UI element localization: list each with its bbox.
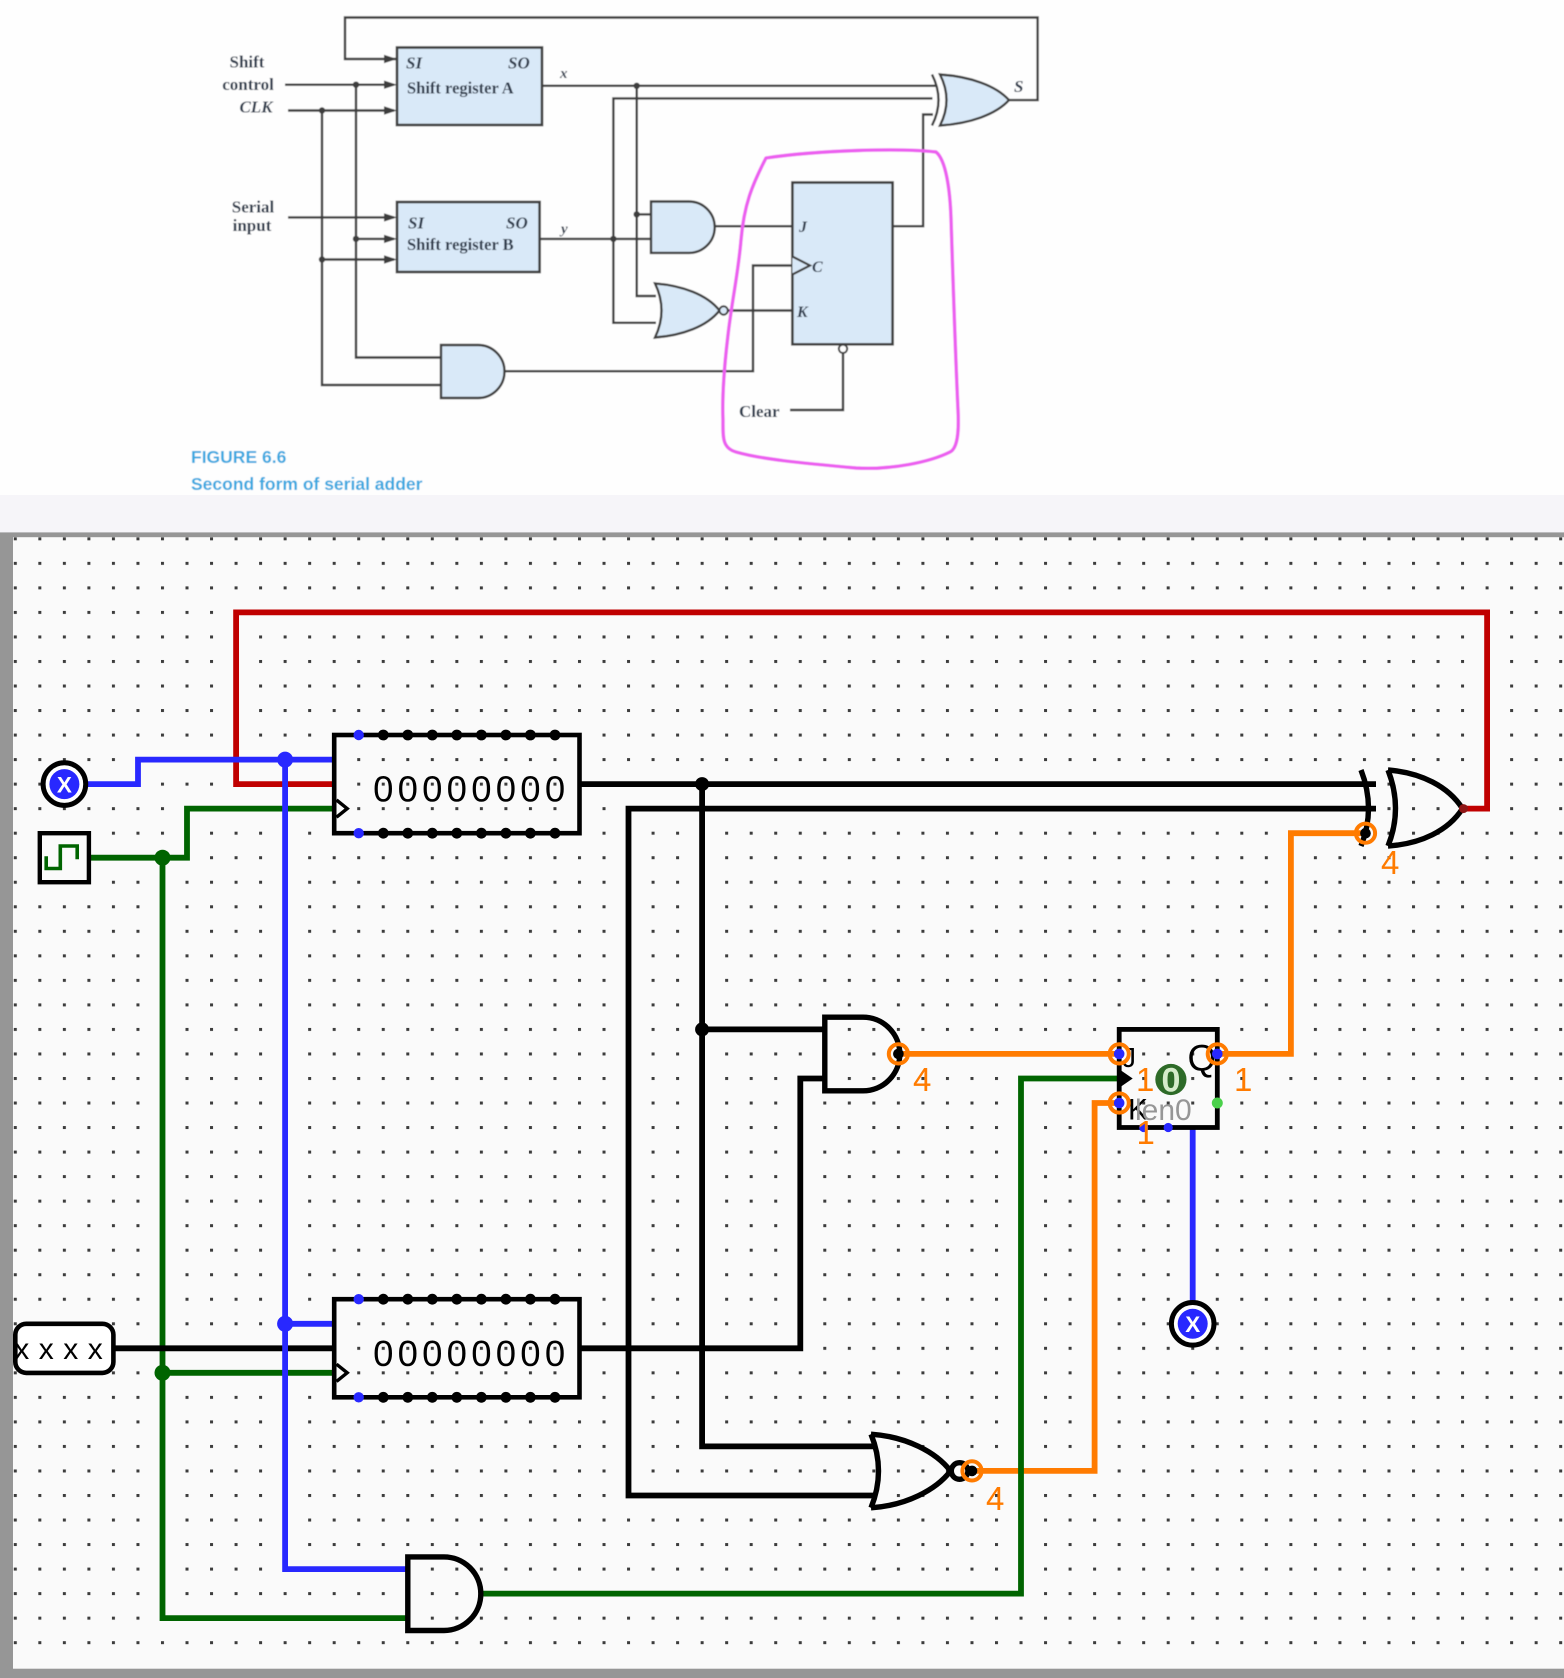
width mismatch marker J pin (1110, 1044, 1129, 1063)
label Shift control (222, 53, 1023, 422)
JK flip-flop (len0) (1119, 1029, 1223, 1132)
svg-text:x: x (14, 1333, 29, 1366)
svg-text:Shift register A: Shift register A (407, 79, 514, 98)
shift register B box (397, 202, 540, 272)
svg-text:0: 0 (447, 1333, 467, 1374)
svg-text:Shift register B: Shift register B (407, 235, 514, 254)
wire Q feedback to XOR input 3 (893, 115, 933, 227)
svg-text:0: 0 (447, 769, 467, 810)
wire branch to AND1 input 1 (702, 1027, 825, 1033)
svg-text:0: 0 (422, 1333, 442, 1374)
wire blue vertical to register B (285, 760, 334, 1324)
simulator canvas background (0, 495, 1564, 532)
wire pin X to register A (86, 760, 334, 785)
wire NOR output to K (972, 1103, 1119, 1471)
svg-text:x: x (88, 1333, 103, 1366)
svg-text:0: 0 (545, 769, 565, 810)
svg-text:0: 0 (373, 769, 393, 810)
NOR gate feeding K (4-bit) (871, 1434, 968, 1508)
svg-text:x: x (39, 1333, 54, 1366)
arrowheads into registers (384, 55, 397, 63)
XOR gate (4-bit) (1361, 770, 1463, 846)
svg-text:1: 1 (1234, 1061, 1252, 1098)
output pin X (top left) (43, 763, 86, 806)
svg-text:Serial: Serial (232, 198, 275, 217)
wire CLK (288, 109, 394, 111)
pink highlighter loop around JK flip-flop (723, 150, 959, 468)
svg-text:K: K (796, 304, 809, 321)
width mismatch marker Q pin (1208, 1044, 1227, 1063)
svg-text:0: 0 (398, 769, 418, 810)
wire register A output branch down to AND1 and NOR input 1 (702, 784, 874, 1446)
wire Shift control (285, 83, 394, 85)
svg-text:input: input (233, 216, 272, 235)
AND gate feeding J (651, 202, 715, 253)
XOR output port dot (1459, 804, 1468, 813)
wire clock net to C input (505, 266, 793, 372)
svg-text:Clear: Clear (739, 402, 780, 421)
JK state badge 0 (1155, 1064, 1186, 1095)
junction clock net at register B (155, 1365, 171, 1381)
junction blue net at register B (277, 1316, 293, 1332)
AND gate feeding JK clock (408, 1557, 481, 1631)
svg-text:0: 0 (520, 769, 540, 810)
wire shift-control vertical to AND input 1 (356, 85, 441, 358)
JK flip-flop box (792, 183, 892, 353)
svg-text:0: 0 (496, 1333, 516, 1374)
svg-text:J: J (798, 219, 808, 236)
svg-text:y: y (559, 222, 568, 238)
wire net to XOR input 2 and NOR input 2 (629, 809, 1377, 1496)
shift register A box (397, 48, 542, 126)
wire CLK vertical to AND input 2 (322, 111, 441, 386)
wire AND2 output to JK clock (481, 1079, 1119, 1594)
svg-text:4: 4 (1381, 844, 1399, 881)
svg-text:4: 4 (986, 1480, 1004, 1517)
junction clock net top (155, 850, 171, 866)
shift register B (00000000) (334, 1294, 579, 1403)
clock component (40, 833, 89, 882)
svg-text:0: 0 (471, 769, 491, 810)
svg-text:Second form of serial adder: Second form of serial adder (191, 474, 423, 494)
svg-text:X: X (1185, 1312, 1200, 1337)
width mismatch marker XOR input (1356, 824, 1375, 843)
svg-text:SO: SO (508, 54, 530, 73)
AND gate (shift control, CLK) (441, 345, 505, 398)
svg-text:X: X (57, 772, 72, 797)
svg-text:control: control (222, 75, 274, 94)
wire register A output to XOR input 1 (580, 781, 1377, 787)
wire AND output to J (715, 225, 793, 227)
junction register A output net (695, 777, 709, 791)
XOR gate producing S (940, 75, 1009, 126)
wire Serial input (288, 216, 394, 218)
wire JK bottom port to output pin X (1190, 1128, 1196, 1302)
svg-text:0: 0 (545, 1333, 565, 1374)
wire y branch down to NOR input 2 (613, 239, 656, 323)
left gray strip (0, 537, 13, 1678)
svg-text:x: x (63, 1333, 78, 1366)
svg-text:0: 0 (520, 1333, 540, 1374)
canvas top border (0, 532, 1564, 537)
junction blue net top (277, 752, 293, 768)
svg-text:x: x (559, 66, 568, 82)
wire Clear input (790, 353, 843, 410)
wire NOR output to K (728, 309, 793, 311)
svg-text:0: 0 (496, 769, 516, 810)
svg-text:SO: SO (506, 214, 528, 233)
wire feedback SO-A to SI-A and from S output (345, 18, 1038, 101)
wire y (register B output) (540, 238, 652, 240)
svg-text:0: 0 (471, 1333, 491, 1374)
svg-text:SI: SI (406, 54, 423, 73)
junction at AND1 input branch (695, 1022, 709, 1036)
width mismatch marker AND1 output (889, 1044, 908, 1063)
svg-text:C: C (812, 259, 823, 276)
wire clock vertical to register B clock (163, 858, 335, 1373)
wire register B output to AND1 input 2 (580, 1079, 825, 1349)
NOR gate feeding K (655, 283, 720, 337)
JK right edge green dot (1212, 1098, 1223, 1109)
wire blue vertical to AND2 input 1 (285, 1324, 408, 1569)
shift register A (00000000) (334, 730, 579, 839)
wire x to AND input 1 (637, 213, 652, 215)
junction dots (353, 82, 359, 88)
svg-text:Shift: Shift (230, 53, 265, 72)
width mismatch marker NOR output (962, 1461, 981, 1480)
wire x (register A output to XOR) (542, 85, 936, 87)
bottom gray strip (13, 1669, 1564, 1678)
svg-text:4: 4 (913, 1061, 931, 1098)
svg-text:0: 0 (398, 1333, 418, 1374)
JK bottom ports (1139, 1123, 1148, 1132)
wire error net feedback from XOR output to register A input (236, 612, 1487, 808)
svg-text:SI: SI (408, 214, 425, 233)
wire CLK branch into register B clock (322, 258, 394, 260)
svg-text:0: 0 (373, 1333, 393, 1374)
wire x branch down to AND and NOR (637, 86, 656, 296)
wire AND1 output to J (898, 1051, 1119, 1057)
svg-text:0: 0 (422, 769, 442, 810)
wire y branch up to XOR input 2 (613, 98, 932, 239)
svg-text:1: 1 (1136, 1061, 1154, 1098)
input pin xxxx (4-bit) (14, 1324, 113, 1373)
wire clock to register A clock (89, 809, 334, 858)
wire shift-control branch into register B (356, 238, 394, 240)
svg-text:1: 1 (1137, 1114, 1155, 1151)
svg-text:S: S (1014, 77, 1023, 96)
svg-text:FIGURE 6.6: FIGURE 6.6 (191, 447, 287, 467)
svg-text:CLK: CLK (239, 98, 274, 117)
wire Q output to XOR input 3 (1217, 833, 1364, 1054)
AND gate feeding J (4-bit) (825, 1017, 900, 1091)
wire xxxx input to register B (113, 1345, 334, 1351)
wire clock vertical to AND gate input (163, 1373, 408, 1618)
output pin X (bottom) (1171, 1303, 1214, 1346)
width mismatch marker K pin (1110, 1093, 1129, 1112)
